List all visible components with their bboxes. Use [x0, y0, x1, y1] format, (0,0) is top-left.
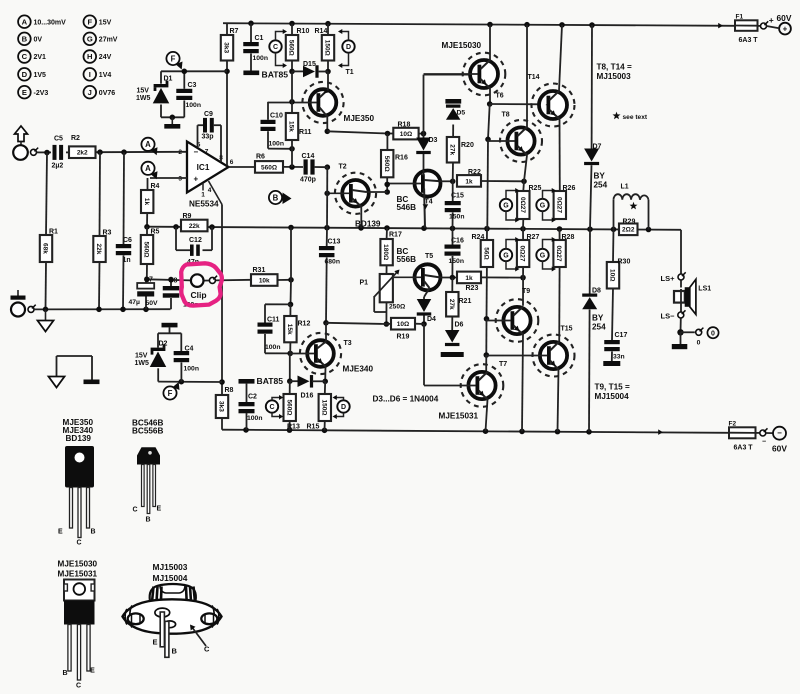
svg-text:180Ω: 180Ω: [382, 244, 389, 260]
svg-text:C: C: [133, 507, 138, 514]
svg-text:G: G: [540, 253, 546, 260]
svg-text:560Ω: 560Ω: [383, 156, 390, 172]
svg-text:MJ15003: MJ15003: [153, 562, 188, 572]
svg-text:15k: 15k: [288, 121, 295, 132]
svg-text:150n: 150n: [449, 214, 465, 221]
svg-text:6: 6: [230, 159, 234, 166]
svg-text:27k: 27k: [448, 299, 455, 310]
svg-text:1k: 1k: [465, 178, 473, 185]
svg-text:MJE350: MJE350: [344, 114, 375, 123]
svg-text:R2: R2: [71, 135, 80, 142]
svg-text:LS1: LS1: [698, 286, 711, 293]
svg-text:see text: see text: [623, 114, 648, 121]
svg-text:C: C: [22, 52, 28, 61]
svg-text:−: −: [194, 148, 199, 157]
svg-text:C: C: [76, 683, 81, 690]
svg-text:C10: C10: [270, 113, 283, 120]
svg-text:B: B: [146, 517, 151, 524]
svg-text:G: G: [503, 203, 509, 210]
svg-text:7: 7: [205, 149, 209, 156]
svg-text:R9: R9: [183, 213, 192, 220]
svg-text:MJ15003: MJ15003: [597, 72, 632, 81]
svg-text:C9: C9: [204, 111, 213, 118]
svg-text:C: C: [204, 645, 210, 654]
svg-text:250Ω: 250Ω: [389, 304, 406, 311]
svg-text:D5: D5: [457, 110, 466, 117]
svg-text:50V: 50V: [146, 300, 159, 307]
svg-text:R3: R3: [103, 230, 112, 237]
svg-text:C3: C3: [188, 82, 197, 89]
svg-text:33p: 33p: [202, 134, 214, 141]
svg-text:F: F: [171, 54, 176, 63]
svg-text:27mV: 27mV: [99, 37, 118, 44]
svg-text:R20: R20: [461, 142, 474, 149]
svg-text:G: G: [87, 35, 93, 44]
svg-text:150n: 150n: [449, 258, 465, 265]
svg-text:+: +: [194, 175, 199, 184]
svg-text:1W5: 1W5: [135, 360, 150, 367]
svg-text:1: 1: [201, 192, 205, 199]
svg-text:MJE15031: MJE15031: [439, 412, 479, 421]
svg-text:C: C: [77, 540, 82, 547]
svg-text:556B: 556B: [397, 255, 417, 264]
svg-text:0Ω27: 0Ω27: [519, 245, 526, 261]
svg-text:2k2: 2k2: [77, 150, 88, 157]
svg-text:E: E: [22, 88, 27, 97]
svg-text:C1: C1: [255, 35, 264, 42]
svg-text:G: G: [540, 203, 546, 210]
svg-text:A: A: [145, 140, 151, 149]
svg-text:R22: R22: [468, 169, 481, 176]
svg-text:R14: R14: [315, 28, 328, 35]
svg-text:R13: R13: [287, 424, 300, 431]
svg-text:6A3 T: 6A3 T: [734, 445, 754, 452]
svg-text:B: B: [273, 193, 279, 202]
svg-text:D16: D16: [301, 393, 314, 400]
svg-text:B: B: [22, 35, 28, 44]
svg-text:0Ω27: 0Ω27: [555, 197, 562, 213]
svg-text:33n: 33n: [613, 354, 625, 361]
svg-text:F2: F2: [729, 420, 737, 427]
svg-text:D3: D3: [429, 137, 438, 144]
svg-text:R21: R21: [459, 298, 472, 305]
svg-text:C15: C15: [451, 193, 464, 200]
svg-text:R4: R4: [151, 183, 160, 190]
svg-text:C13: C13: [328, 239, 341, 246]
svg-text:MJE15030: MJE15030: [442, 41, 482, 50]
svg-text:B: B: [172, 647, 178, 656]
svg-text:R11: R11: [299, 129, 312, 136]
svg-text:100n: 100n: [265, 344, 281, 351]
svg-text:T8, T14 =: T8, T14 =: [597, 63, 632, 72]
svg-text:0: 0: [697, 339, 701, 346]
svg-text:+: +: [769, 15, 774, 25]
svg-text:T14: T14: [528, 74, 540, 81]
svg-text:R26: R26: [563, 185, 576, 192]
svg-text:24V: 24V: [99, 54, 112, 61]
svg-text:MJE15030: MJE15030: [58, 560, 98, 569]
svg-text:C2: C2: [248, 394, 257, 401]
svg-text:BC556B: BC556B: [132, 426, 163, 435]
svg-text:A: A: [22, 17, 28, 26]
svg-text:2: 2: [178, 149, 182, 156]
svg-text:BAT85: BAT85: [262, 70, 289, 80]
svg-text:C: C: [273, 44, 278, 51]
svg-text:C6: C6: [123, 237, 132, 244]
svg-text:560Ω: 560Ω: [285, 399, 292, 415]
svg-text:560Ω: 560Ω: [261, 164, 277, 171]
svg-text:R6: R6: [256, 154, 265, 161]
svg-text:R1: R1: [49, 229, 58, 236]
svg-text:IC1: IC1: [197, 163, 210, 172]
svg-text:27k: 27k: [449, 144, 456, 155]
svg-text:150Ω: 150Ω: [320, 399, 327, 415]
svg-text:MJ15004: MJ15004: [153, 573, 188, 583]
svg-text:D4: D4: [427, 316, 436, 323]
svg-text:150Ω: 150Ω: [324, 40, 331, 56]
svg-text:T15: T15: [561, 326, 573, 333]
svg-text:546B: 546B: [397, 203, 417, 212]
svg-text:R27: R27: [527, 234, 540, 241]
svg-text:2Ω2: 2Ω2: [622, 227, 635, 234]
svg-text:680n: 680n: [325, 259, 341, 266]
svg-text:R10: R10: [297, 28, 310, 35]
svg-text:F: F: [87, 17, 92, 26]
svg-text:100n: 100n: [184, 366, 200, 373]
svg-text:68k: 68k: [42, 243, 49, 254]
svg-text:R29: R29: [623, 219, 636, 226]
svg-text:BY: BY: [594, 172, 606, 181]
svg-text:10Ω: 10Ω: [609, 269, 616, 281]
svg-text:MJE340: MJE340: [343, 365, 374, 374]
svg-text:1W5: 1W5: [136, 95, 151, 102]
svg-text:+: +: [783, 25, 788, 34]
svg-text:1V5: 1V5: [34, 72, 47, 79]
svg-text:3: 3: [178, 176, 182, 183]
svg-text:60V: 60V: [772, 444, 787, 454]
svg-text:D6: D6: [455, 322, 464, 329]
svg-text:R25: R25: [529, 185, 542, 192]
svg-text:C5: C5: [54, 136, 63, 143]
svg-text:D15: D15: [303, 61, 316, 68]
svg-text:B: B: [91, 529, 96, 536]
svg-text:J: J: [88, 88, 92, 97]
svg-text:3k3: 3k3: [223, 42, 230, 53]
svg-text:C17: C17: [615, 332, 628, 339]
svg-text:T5: T5: [425, 253, 433, 260]
svg-text:254: 254: [594, 181, 608, 190]
svg-text:MJ15004: MJ15004: [595, 392, 630, 401]
svg-text:F1: F1: [736, 13, 744, 20]
svg-text:0Ω27: 0Ω27: [519, 197, 526, 213]
svg-text:T6: T6: [496, 93, 504, 100]
svg-text:D7: D7: [593, 144, 602, 151]
svg-text:T7: T7: [499, 361, 507, 368]
svg-text:BD139: BD139: [66, 434, 92, 443]
svg-text:LS−: LS−: [661, 312, 676, 321]
svg-text:100n: 100n: [186, 102, 202, 109]
svg-text:15V: 15V: [137, 88, 150, 95]
svg-text:254: 254: [592, 323, 606, 332]
svg-text:3k3: 3k3: [218, 401, 225, 412]
svg-text:D1: D1: [164, 76, 173, 83]
svg-text:T9: T9: [522, 288, 530, 295]
svg-text:2µ2: 2µ2: [52, 163, 64, 170]
svg-text:22k: 22k: [95, 244, 102, 255]
svg-text:100n: 100n: [269, 141, 285, 148]
svg-text:−: −: [762, 439, 766, 446]
svg-text:4: 4: [208, 187, 212, 194]
svg-text:BD139: BD139: [355, 220, 381, 229]
svg-text:15V: 15V: [135, 353, 148, 360]
svg-text:R5: R5: [151, 229, 160, 236]
svg-text:T3: T3: [344, 340, 352, 347]
svg-text:I: I: [89, 70, 91, 79]
svg-text:T1: T1: [346, 69, 354, 76]
svg-text:15k: 15k: [286, 324, 293, 335]
svg-text:1k: 1k: [465, 275, 473, 282]
svg-text:A: A: [145, 164, 151, 173]
svg-text:R7: R7: [230, 28, 239, 35]
svg-text:10Ω: 10Ω: [400, 131, 412, 138]
svg-text:NE5534: NE5534: [189, 200, 219, 209]
svg-text:R17: R17: [389, 232, 402, 239]
svg-text:0: 0: [711, 331, 715, 338]
svg-text:-2V3: -2V3: [34, 90, 49, 97]
svg-text:D: D: [22, 70, 28, 79]
svg-text:T2: T2: [339, 164, 347, 171]
svg-text:C12: C12: [189, 237, 202, 244]
svg-text:10Ω: 10Ω: [397, 321, 409, 328]
svg-text:C14: C14: [302, 153, 315, 160]
svg-text:C: C: [269, 404, 274, 411]
svg-text:Clip: Clip: [191, 290, 207, 300]
svg-text:L1: L1: [621, 184, 629, 191]
svg-text:R23: R23: [466, 285, 479, 292]
svg-text:P1: P1: [359, 280, 368, 287]
svg-text:R28: R28: [562, 234, 575, 241]
svg-text:560Ω: 560Ω: [288, 40, 295, 56]
svg-text:C4: C4: [185, 346, 194, 353]
svg-text:2V1: 2V1: [34, 54, 47, 61]
svg-text:C16: C16: [451, 238, 464, 245]
svg-text:BAT85: BAT85: [257, 376, 284, 386]
svg-text:R18: R18: [398, 122, 411, 129]
svg-text:R24: R24: [472, 234, 485, 241]
svg-text:10...30mV: 10...30mV: [34, 19, 67, 26]
svg-text:R19: R19: [397, 334, 410, 341]
svg-text:6A3 T: 6A3 T: [739, 37, 759, 44]
svg-text:0Ω27: 0Ω27: [555, 245, 562, 261]
svg-text:MJE15031: MJE15031: [58, 569, 98, 578]
svg-text:R12: R12: [298, 321, 311, 328]
svg-text:T4: T4: [425, 199, 433, 206]
svg-text:E: E: [90, 668, 95, 675]
svg-text:100n: 100n: [247, 415, 263, 422]
svg-text:15V: 15V: [99, 19, 112, 26]
svg-text:D2: D2: [159, 341, 168, 348]
svg-text:B: B: [62, 670, 67, 677]
svg-text:R8: R8: [225, 387, 234, 394]
svg-text:60V: 60V: [777, 13, 792, 23]
svg-text:T9, T15 =: T9, T15 =: [595, 383, 630, 392]
svg-text:D8: D8: [592, 288, 601, 295]
svg-text:10k: 10k: [259, 277, 270, 284]
svg-text:T8: T8: [502, 112, 510, 119]
svg-text:22k: 22k: [189, 223, 200, 230]
svg-text:R16: R16: [395, 155, 408, 162]
svg-text:D: D: [346, 44, 351, 51]
svg-text:−: −: [777, 429, 782, 438]
svg-text:47µ: 47µ: [129, 299, 141, 306]
svg-text:LS+: LS+: [661, 274, 676, 283]
svg-text:R30: R30: [618, 259, 631, 266]
svg-text:R31: R31: [253, 267, 266, 274]
svg-text:E: E: [152, 638, 157, 647]
svg-text:BY: BY: [592, 314, 604, 323]
svg-text:H: H: [87, 52, 92, 61]
svg-text:E: E: [58, 529, 63, 536]
svg-text:56Ω: 56Ω: [483, 247, 490, 259]
svg-text:0V76: 0V76: [99, 90, 115, 97]
svg-text:F: F: [168, 389, 173, 398]
svg-text:D: D: [341, 404, 346, 411]
svg-text:560Ω: 560Ω: [143, 241, 150, 257]
svg-text:0V: 0V: [34, 37, 43, 44]
svg-text:1k: 1k: [143, 198, 150, 206]
svg-text:D3...D6 = 1N4004: D3...D6 = 1N4004: [373, 395, 439, 404]
svg-text:100n: 100n: [253, 55, 269, 62]
svg-text:R15: R15: [307, 424, 320, 431]
svg-text:1V4: 1V4: [99, 72, 112, 79]
svg-text:470p: 470p: [300, 177, 316, 184]
svg-text:E: E: [157, 506, 162, 513]
svg-text:C11: C11: [267, 317, 280, 324]
svg-text:G: G: [503, 253, 509, 260]
